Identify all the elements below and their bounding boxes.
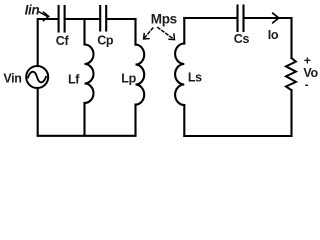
svg-text:Mps: Mps — [151, 12, 177, 27]
svg-text:-: - — [305, 77, 309, 91]
svg-text:Cf: Cf — [56, 34, 70, 48]
wire bottom secondary — [184, 135, 291, 137]
current arrow Iin — [39, 12, 49, 21]
capacitor Cf — [59, 6, 65, 32]
wire Lp bottom — [134, 105, 136, 135]
resistor load — [286, 58, 296, 90]
svg-text:Vin: Vin — [3, 71, 21, 85]
source Vin — [26, 66, 48, 88]
coupling arrow right (to Ls) — [158, 28, 175, 40]
svg-text:Cp: Cp — [97, 34, 114, 48]
wire right vertical top — [290, 18, 292, 58]
wire secondary top (Ls to Cs) — [184, 17, 236, 19]
inductor Lf — [85, 45, 94, 104]
svg-text:Lf: Lf — [68, 73, 80, 87]
capacitor Cs — [238, 6, 244, 32]
current arrow Io — [273, 13, 279, 23]
wire top-left horizontal (source to Cf) — [38, 18, 58, 20]
coupling arrow left (to Lp) — [144, 28, 153, 39]
wire Ls bottom — [183, 105, 185, 136]
wire Lf bottom — [83, 103, 85, 135]
inductor Lp — [136, 45, 145, 105]
svg-text:Io: Io — [268, 28, 279, 42]
inductor Ls — [175, 44, 184, 106]
capacitor Cp — [100, 6, 106, 31]
wire Lp top — [134, 19, 136, 45]
wire Vin bottom — [37, 88, 39, 135]
wire Vin top — [37, 19, 39, 66]
svg-text:Ls: Ls — [188, 71, 202, 85]
wire right vertical bottom — [290, 90, 292, 136]
wire bottom primary — [38, 135, 136, 137]
node junction Lf top / wire — [83, 19, 85, 45]
svg-text:Lp: Lp — [121, 72, 136, 86]
wire Ls top — [183, 18, 185, 44]
svg-text:Cs: Cs — [234, 32, 250, 46]
wire Cs to right corner — [245, 17, 292, 19]
svg-text:Iin: Iin — [25, 3, 40, 18]
wire Cf to Cp — [66, 18, 100, 20]
wire Cp to Lp corner — [107, 18, 135, 20]
